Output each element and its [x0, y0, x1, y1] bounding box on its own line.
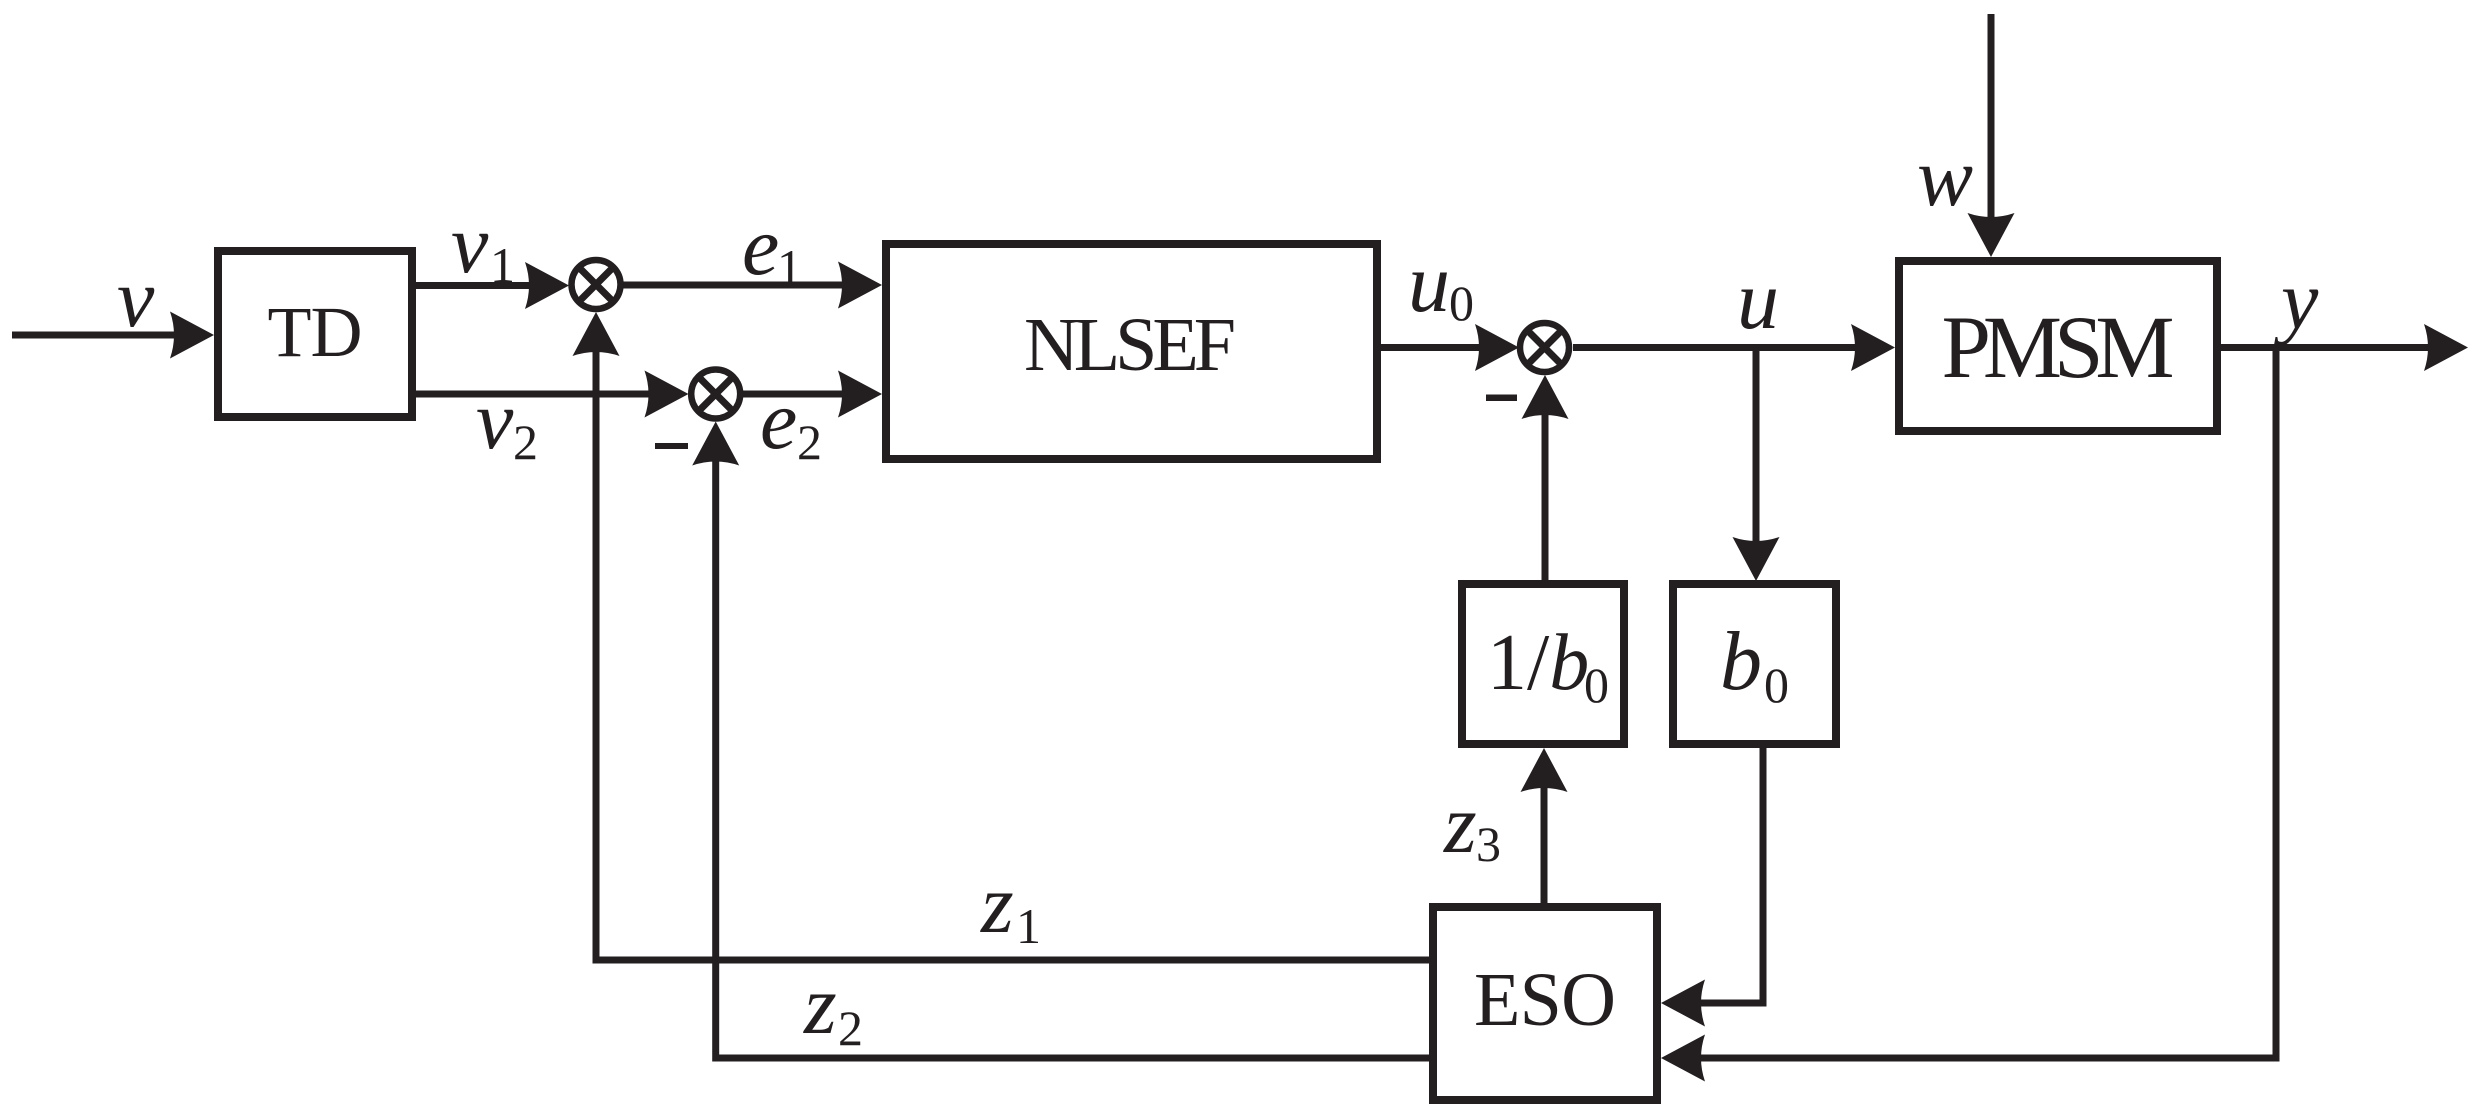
minus sign at S2 — [655, 443, 688, 449]
minus sign at S3 — [1486, 395, 1517, 402]
arrowhead v2 into S2 — [645, 371, 689, 418]
label e1 — [742, 200, 802, 295]
label e2 — [760, 374, 822, 470]
svg-text:TD: TD — [268, 292, 363, 372]
wire from 1/b0 up to S3 — [1542, 397, 1549, 580]
summing junction S1 — [572, 260, 621, 309]
arrowhead z2 into S2 — [692, 422, 739, 466]
svg-text:b: b — [1720, 615, 1762, 708]
svg-text:2: 2 — [513, 414, 538, 470]
svg-text:v: v — [476, 374, 514, 467]
summing junction S2 — [691, 370, 740, 419]
svg-text:u: u — [1408, 237, 1450, 330]
wire u branch down to b0 — [1753, 348, 1760, 560]
svg-text:1: 1 — [1016, 898, 1041, 954]
block NLSEF — [886, 244, 1377, 459]
svg-text:z: z — [1443, 778, 1477, 871]
block TD — [218, 251, 412, 417]
wire y feedback down and left into ESO — [1683, 348, 2276, 1059]
svg-text:z: z — [803, 959, 837, 1052]
arrowhead v1 into S1 — [525, 262, 569, 309]
block ESO — [1433, 907, 1657, 1100]
svg-text:e: e — [742, 200, 779, 293]
arrowhead e2 into NLSEF — [838, 371, 882, 418]
label v2 — [476, 374, 538, 470]
arrowhead into TD — [170, 312, 214, 359]
arrowhead z1 into S1 — [573, 312, 620, 356]
svg-text:v: v — [451, 198, 489, 291]
wire z2 from ESO left to S2 — [716, 443, 1429, 1058]
arrowhead y output — [2424, 324, 2468, 371]
svg-text:e: e — [760, 374, 797, 467]
svg-text:PMSM: PMSM — [1942, 299, 2175, 397]
arrowhead z3 into 1/b0 — [1521, 748, 1568, 792]
svg-text:v: v — [117, 252, 155, 345]
label z3 — [1443, 778, 1501, 872]
block PMSM — [1899, 261, 2217, 431]
svg-text:1: 1 — [777, 239, 802, 295]
svg-text:z: z — [980, 858, 1014, 951]
svg-text:2: 2 — [797, 414, 822, 470]
label z2 — [803, 959, 863, 1056]
svg-text:y: y — [2273, 254, 2319, 347]
arrowhead w into PMSM — [1968, 213, 2015, 257]
wire y output from PMSM — [2221, 344, 2446, 351]
arrowhead y feedback into ESO — [1661, 1035, 1705, 1082]
summing junction S3 — [1520, 323, 1569, 372]
wire z3 from ESO up to 1/b0 — [1541, 770, 1548, 903]
label z1 — [980, 858, 1041, 954]
svg-text:u: u — [1737, 254, 1779, 347]
svg-text:2: 2 — [838, 1000, 863, 1056]
wire v input — [12, 332, 192, 339]
label 1/b0 — [1487, 619, 1609, 713]
arrowhead u into b0 — [1733, 537, 1780, 581]
svg-text:w: w — [1917, 131, 1973, 224]
wire v1 from TD to summing junction S1 — [416, 282, 547, 289]
svg-text:1/b: 1/b — [1487, 619, 1589, 707]
wire e1 from S1 to NLSEF — [623, 282, 860, 289]
wire u0 from NLSEF to summing junction S3 — [1381, 344, 1497, 351]
arrowhead u0 into S3 — [1475, 324, 1519, 371]
label v1 — [451, 198, 515, 293]
arrowhead 1/b0 output into S3 — [1522, 375, 1569, 419]
svg-text:1: 1 — [490, 237, 515, 293]
arrowhead e1 into NLSEF — [838, 262, 882, 309]
label u0 — [1408, 237, 1474, 331]
block b0 — [1673, 584, 1836, 744]
svg-text:NLSEF: NLSEF — [1024, 303, 1236, 387]
wire w disturbance input — [1988, 14, 1995, 235]
wire v2 from TD to summing junction S2 — [416, 391, 666, 398]
arrowhead b0 output into ESO — [1661, 980, 1705, 1027]
svg-text:3: 3 — [1476, 816, 1501, 872]
wire z1 from ESO left to S1 — [596, 334, 1429, 960]
svg-text:0: 0 — [1584, 657, 1609, 713]
wire u from S3 to PMSM — [1573, 344, 1873, 351]
block 1/b0 — [1462, 584, 1624, 744]
svg-text:0: 0 — [1764, 657, 1789, 713]
wire e2 from S2 to NLSEF — [743, 391, 860, 398]
arrowhead u into PMSM — [1851, 324, 1895, 371]
svg-text:0: 0 — [1449, 275, 1474, 331]
label b0 — [1720, 615, 1789, 713]
wire from b0 down and left into ESO — [1683, 748, 1763, 1003]
svg-text:ESO: ESO — [1474, 958, 1616, 1042]
